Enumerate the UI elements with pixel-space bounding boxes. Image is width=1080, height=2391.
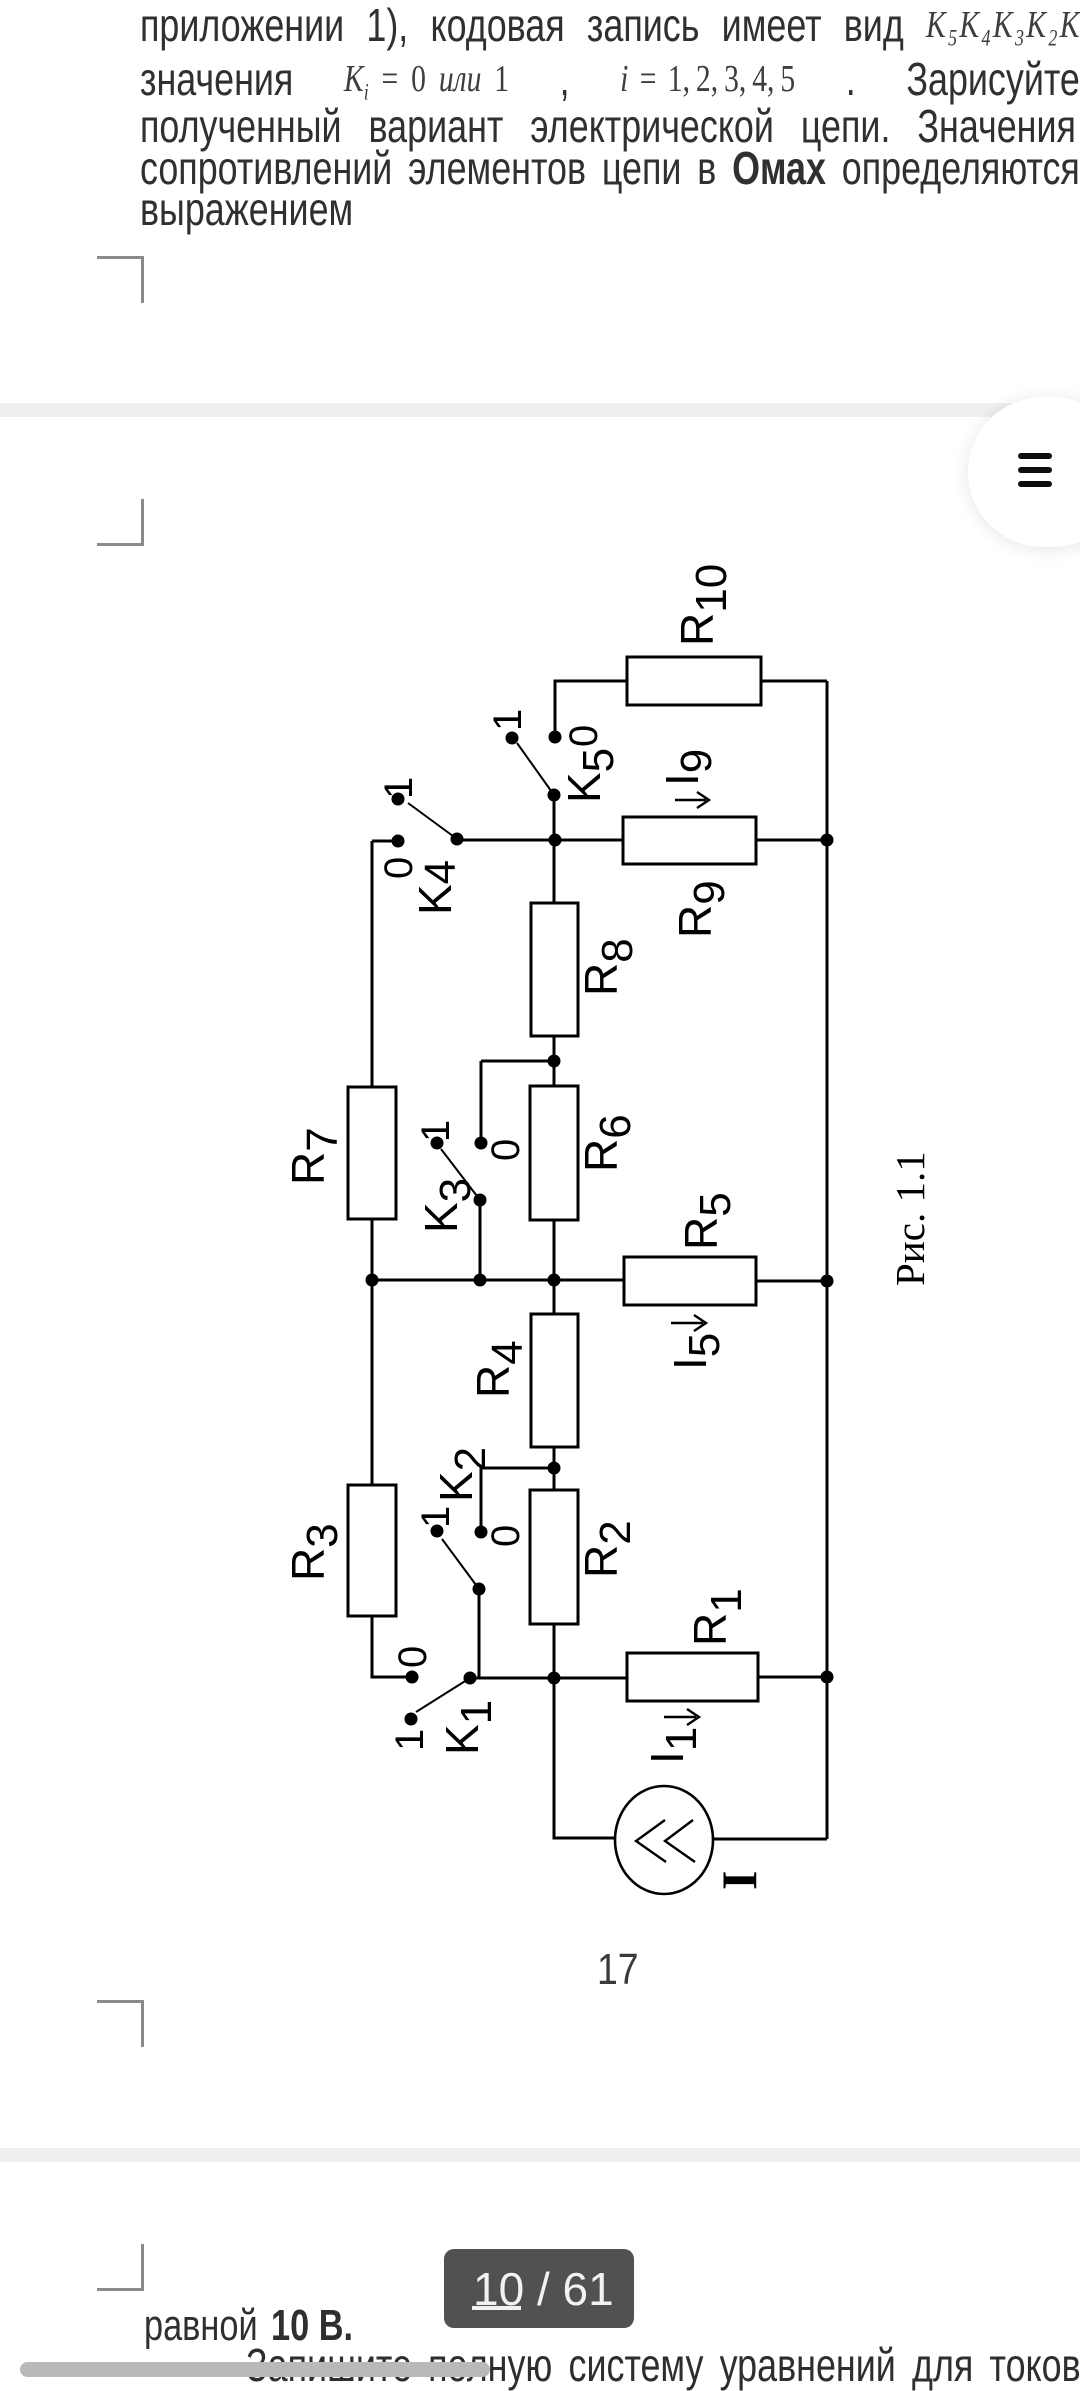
svg-text:R3: R3 xyxy=(282,1523,347,1581)
svg-text:R5: R5 xyxy=(675,1192,740,1250)
svg-text:I9: I9 xyxy=(656,749,721,786)
svg-text:I: I xyxy=(711,1871,767,1890)
node dot K5 pivot xyxy=(548,789,561,802)
resistor R2 xyxy=(530,1490,578,1624)
current source chevron left xyxy=(636,1820,666,1862)
wire source to right rail xyxy=(713,1838,827,1841)
node dot K3-1 xyxy=(431,1137,444,1150)
resistor R6 xyxy=(530,1086,578,1220)
svg-text:1: 1 xyxy=(486,709,530,731)
svg-text:0: 0 xyxy=(484,1139,528,1161)
svg-text:I1: I1 xyxy=(641,1727,706,1764)
resistor R9 xyxy=(623,817,756,864)
node dot K3-0 xyxy=(475,1137,488,1150)
resistor R10 xyxy=(627,657,761,705)
resistor R1 xyxy=(627,1653,758,1701)
resistor R4 xyxy=(531,1314,578,1447)
svg-text:K5: K5 xyxy=(558,748,623,803)
node dot rail top bus xyxy=(821,834,834,847)
node dot K2-0 xyxy=(475,1526,488,1539)
wire bottom bus xyxy=(470,1677,627,1680)
node dot mid bus R6 xyxy=(548,1274,561,1287)
svg-text:1: 1 xyxy=(414,1506,458,1528)
wire mid bus to R4 xyxy=(553,1280,556,1314)
wire R3 to K1 0-terminal xyxy=(372,1616,406,1677)
wire mid bus to R3 xyxy=(371,1280,374,1485)
wire bottom bus right xyxy=(758,1676,827,1679)
svg-text:I5: I5 xyxy=(664,1333,729,1370)
wire R6 to mid bus xyxy=(553,1220,556,1280)
node dot R8/R6 junction xyxy=(548,1055,561,1068)
svg-text:R4: R4 xyxy=(467,1340,532,1398)
svg-text:1: 1 xyxy=(388,1729,432,1751)
wire left rail to R7 xyxy=(371,841,374,1087)
wire K5 pivot to bus xyxy=(553,795,556,840)
wire R7 to mid bus xyxy=(371,1219,374,1280)
svg-text:K1: K1 xyxy=(436,1700,501,1755)
svg-text:K2: K2 xyxy=(430,1447,495,1502)
corner marks xyxy=(97,256,144,303)
node dot K4-0 xyxy=(392,835,405,848)
next page heading (clipped) xyxy=(246,2342,1080,2388)
node dot mid bus left xyxy=(366,1274,379,1287)
wire bus to R8 xyxy=(553,840,556,903)
wire bottom bus to source xyxy=(554,1678,615,1838)
svg-text:R6: R6 xyxy=(575,1114,640,1172)
wire top bus left xyxy=(457,839,623,842)
page number 17 xyxy=(597,1948,639,1992)
current source I xyxy=(615,1786,713,1894)
node dot K4 pivot xyxy=(451,833,464,846)
floating menu button xyxy=(968,397,1080,547)
svg-text:K3: K3 xyxy=(415,1178,480,1233)
svg-text:R9: R9 xyxy=(669,880,734,938)
switch K1 arm xyxy=(416,1678,470,1712)
svg-text:1: 1 xyxy=(414,1120,458,1142)
resistor R7 xyxy=(348,1087,396,1219)
svg-text:0: 0 xyxy=(484,1525,528,1547)
resistor R3 xyxy=(348,1485,396,1616)
svg-text:1: 1 xyxy=(377,777,421,799)
svg-text:0: 0 xyxy=(391,1646,435,1668)
wire mid bus right xyxy=(756,1280,827,1283)
bottom partial text line xyxy=(144,2304,353,2348)
resistor R5 xyxy=(624,1257,756,1305)
node dot K3 pivot xyxy=(474,1194,487,1207)
svg-text:Рис. 1.1: Рис. 1.1 xyxy=(887,1151,933,1286)
wire K2 pivot to bottom bus xyxy=(478,1589,481,1678)
resistor R8 xyxy=(531,903,578,1036)
svg-text:R1: R1 xyxy=(684,1588,751,1646)
node dot mid bus K3 xyxy=(474,1274,487,1287)
wire R10 right to right rail xyxy=(761,680,827,683)
wire node to K3 xyxy=(481,1061,554,1143)
page separator bands xyxy=(0,403,1080,417)
node dot rail bottom bus xyxy=(821,1671,834,1684)
page indicator badge xyxy=(444,2249,634,2328)
node dot rail mid bus xyxy=(821,1275,834,1288)
wire right rail xyxy=(826,681,829,1839)
svg-text:0: 0 xyxy=(562,725,606,747)
arrow I9 xyxy=(675,792,709,808)
wire K3 pivot to mid bus xyxy=(479,1200,482,1280)
wire mid bus xyxy=(372,1279,624,1282)
node dot K4-1 xyxy=(392,793,405,806)
wire R2 to bottom bus xyxy=(553,1624,556,1678)
switch K5 arm xyxy=(517,743,554,795)
progress bar xyxy=(20,2362,490,2377)
svg-text:R10: R10 xyxy=(671,564,736,646)
svg-text:R8: R8 xyxy=(575,938,642,996)
node dot K2 pivot xyxy=(473,1583,486,1596)
node dot bottom bus R2 xyxy=(548,1672,561,1685)
wire node to K2 xyxy=(480,1468,554,1532)
switch K3 arm xyxy=(441,1149,480,1200)
svg-text:0: 0 xyxy=(377,857,421,879)
switch K2 arm xyxy=(442,1539,479,1589)
current source chevron right xyxy=(665,1820,695,1862)
wire K4 0-terminal to left rail xyxy=(372,840,392,843)
node dot K1-0 xyxy=(406,1671,419,1684)
wire top bus right xyxy=(756,839,827,842)
node dot bus/K5 xyxy=(549,834,562,847)
arrow I1 xyxy=(664,1709,699,1725)
node dot K5-1 xyxy=(506,732,519,745)
wire R8 to R6 xyxy=(553,1036,556,1086)
node dot K2-1 xyxy=(431,1525,444,1538)
node dot K1-1 xyxy=(405,1713,418,1726)
wire R4 to R2 xyxy=(553,1447,556,1490)
node dot R4/R2 junction xyxy=(548,1462,561,1475)
node dot K1 pivot xyxy=(464,1672,477,1685)
node dot K5-0 xyxy=(549,731,562,744)
wire R10 left to K5 top xyxy=(555,681,627,737)
svg-text:R7: R7 xyxy=(282,1127,347,1185)
switch K4 arm xyxy=(408,803,457,839)
svg-text:R2: R2 xyxy=(575,1520,640,1578)
arrow I5 xyxy=(671,1315,706,1331)
